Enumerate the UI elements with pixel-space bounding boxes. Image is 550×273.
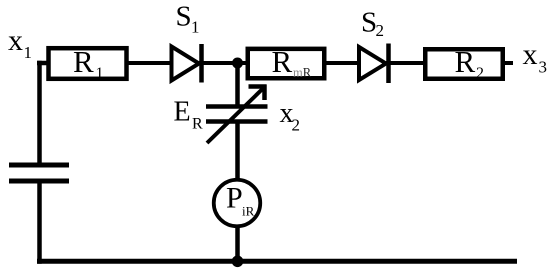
svg-text:R: R bbox=[272, 44, 293, 79]
svg-text:R: R bbox=[192, 116, 203, 133]
svg-text:2: 2 bbox=[292, 116, 301, 135]
svg-text:iR: iR bbox=[242, 204, 255, 219]
svg-text:R: R bbox=[73, 44, 94, 79]
svg-text:2: 2 bbox=[476, 65, 484, 82]
svg-text:2: 2 bbox=[376, 21, 385, 40]
svg-text:mR: mR bbox=[293, 66, 312, 80]
svg-text:x: x bbox=[8, 24, 23, 57]
svg-text:1: 1 bbox=[191, 18, 200, 37]
svg-text:1: 1 bbox=[96, 65, 104, 82]
svg-text:3: 3 bbox=[539, 58, 548, 77]
svg-text:P: P bbox=[226, 182, 243, 215]
svg-text:1: 1 bbox=[24, 43, 33, 62]
svg-text:R: R bbox=[455, 44, 476, 79]
svg-text:S: S bbox=[176, 1, 192, 33]
svg-text:x: x bbox=[523, 38, 538, 71]
svg-text:E: E bbox=[174, 96, 191, 127]
